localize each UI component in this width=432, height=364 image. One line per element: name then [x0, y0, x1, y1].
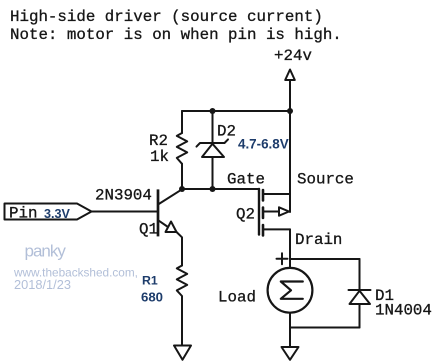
svg-text:panky: panky: [25, 242, 67, 261]
svg-text:High-side driver (source curre: High-side driver (source current): [10, 8, 323, 26]
svg-text:2018/1/23: 2018/1/23: [14, 277, 71, 292]
svg-text:Q2: Q2: [236, 206, 255, 224]
svg-text:Q1: Q1: [139, 221, 158, 239]
svg-text:Note: motor is on when pin is: Note: motor is on when pin is high.: [10, 26, 342, 44]
svg-text:Gate: Gate: [227, 171, 265, 189]
svg-text:R1: R1: [142, 274, 158, 288]
svg-text:+24v: +24v: [274, 47, 312, 65]
svg-text:D2: D2: [217, 123, 236, 141]
svg-text:3.3V: 3.3V: [44, 207, 71, 221]
svg-text:1N4004: 1N4004: [375, 302, 432, 320]
svg-text:Source: Source: [297, 171, 354, 189]
svg-text:2N3904: 2N3904: [95, 187, 152, 205]
svg-text:680: 680: [141, 290, 163, 305]
svg-text:Load: Load: [218, 289, 256, 307]
svg-text:1k: 1k: [150, 148, 169, 166]
svg-text:4.7-6.8V: 4.7-6.8V: [238, 137, 289, 152]
svg-text:Pin: Pin: [9, 205, 37, 223]
svg-text:Drain: Drain: [295, 231, 342, 249]
